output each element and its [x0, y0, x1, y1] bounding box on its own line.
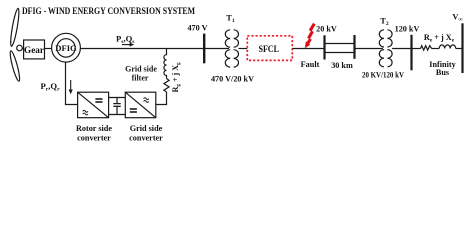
grid converter DC symbol	[130, 109, 137, 112]
svg-text:Rotor side: Rotor side	[76, 124, 112, 133]
wire to infinity bus	[456, 48, 463, 50]
wire gear to DFIG	[45, 48, 52, 50]
converter rotor side box	[78, 92, 109, 118]
svg-text:converter: converter	[77, 134, 111, 143]
svg-text:DFIG - WIND ENERGY CONVERSION: DFIG - WIND ENERGY CONVERSION SYSTEM	[22, 7, 195, 17]
wind turbine blade bottom	[9, 50, 22, 82]
bus bar line end	[353, 35, 355, 59]
converter grid side box	[125, 92, 156, 118]
svg-text:Re + j Xe: Re + j Xe	[424, 33, 455, 43]
grid filter inductor coil	[164, 49, 167, 79]
transformer T2 winding right	[387, 30, 392, 67]
rotor converter DC symbol	[95, 99, 102, 102]
diagonal rotor converter	[78, 92, 109, 118]
wire DFIG down to rotor side converter	[66, 62, 78, 104]
svg-text:Grid side: Grid side	[125, 65, 157, 74]
svg-text:SFCL: SFCL	[259, 44, 280, 55]
transformer T1 winding right	[234, 30, 239, 67]
resistor Re zigzag	[421, 46, 432, 51]
DC link top rail	[109, 97, 126, 99]
svg-text:filter: filter	[132, 74, 149, 83]
svg-text:470 V: 470 V	[187, 24, 207, 33]
svg-text:470 V/20 kV: 470 V/20 kV	[211, 75, 254, 84]
arrow Pr Qr flow	[69, 80, 73, 94]
grid converter AC symbol	[144, 98, 149, 103]
wire bus to T2	[355, 48, 383, 50]
wind turbine hub	[17, 45, 23, 51]
svg-text:Bus: Bus	[436, 68, 449, 77]
svg-text:DFIG: DFIG	[55, 43, 77, 53]
transformer T2 winding left	[379, 30, 384, 67]
grid filter resistor zigzag	[164, 79, 169, 93]
transformer T1 winding left	[225, 30, 230, 67]
svg-text:Gear: Gear	[24, 45, 44, 55]
svg-text:converter: converter	[129, 134, 163, 143]
generator DFIG outer circle	[52, 33, 81, 62]
svg-text:Fault: Fault	[301, 60, 320, 69]
bus bar 470V	[203, 34, 205, 64]
svg-text:30 km: 30 km	[331, 61, 353, 70]
gearbox box	[24, 40, 45, 59]
wire	[432, 48, 440, 50]
transmission line 30km bottom conductor	[325, 52, 355, 54]
diagonal grid converter	[125, 92, 156, 118]
transmission line 30km top conductor	[325, 43, 355, 45]
rotor converter AC symbol	[83, 110, 88, 115]
wire grid converter to filter	[156, 92, 167, 105]
DC link capacitor	[113, 98, 120, 115]
svg-text:20 kV: 20 kV	[316, 25, 337, 34]
svg-text:Grid side: Grid side	[130, 124, 163, 133]
wire DFIG to transformer T1 (stator side)	[80, 48, 229, 50]
wire 120kV bus to line impedance	[412, 48, 421, 50]
wire T2 to 120kV bus	[392, 48, 411, 50]
bus bar 120 kV	[410, 35, 412, 71]
svg-text:120 kV: 120 kV	[395, 25, 420, 34]
fault lightning bolt	[308, 24, 315, 44]
infinity bus bar	[461, 23, 463, 73]
wire hub to gear	[22, 48, 23, 50]
svg-text:20 KV/120 kV: 20 KV/120 kV	[362, 71, 404, 80]
wire SFCL to 20kV bus	[292, 48, 324, 50]
wire T1 to SFCL	[239, 48, 248, 50]
inductor Xe coil	[439, 45, 456, 49]
generator DFIG inner circle	[57, 39, 75, 57]
arrow Ps Qs	[122, 43, 134, 47]
wind turbine blade top	[9, 8, 20, 47]
bus bar 20 kV	[323, 35, 325, 59]
DC link bottom rail	[109, 114, 126, 116]
SFCL box red dashed	[247, 36, 292, 61]
svg-text:Rg + j Xg: Rg + j Xg	[171, 62, 181, 92]
